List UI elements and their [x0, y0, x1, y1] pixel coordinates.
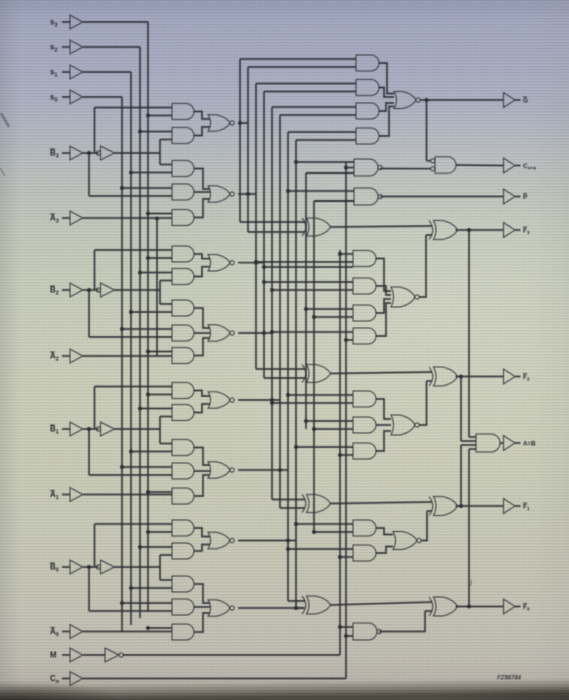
svg-text:A2: A2 [50, 352, 59, 363]
svg-text:Cn+4: Cn+4 [523, 163, 536, 171]
svg-text:A3: A3 [50, 214, 59, 225]
svg-text:s2: s2 [50, 43, 57, 54]
svg-text:F3: F3 [523, 227, 530, 235]
svg-text:s0: s0 [50, 93, 57, 104]
svg-text:F1: F1 [523, 503, 530, 511]
svg-text:G: G [523, 97, 528, 104]
svg-text:A1: A1 [50, 490, 59, 501]
svg-text:B3: B3 [50, 149, 59, 160]
svg-text:P: P [523, 194, 528, 201]
svg-text:M: M [50, 651, 57, 660]
svg-text:F0: F0 [523, 604, 530, 612]
svg-text:s1: s1 [50, 68, 57, 79]
svg-text:F2: F2 [523, 374, 530, 382]
svg-text:A=B: A=B [523, 440, 536, 447]
svg-text:A0: A0 [50, 627, 59, 638]
svg-text:FZ98784: FZ98784 [497, 676, 522, 682]
svg-text:B1: B1 [50, 425, 59, 436]
svg-text:B0: B0 [50, 563, 59, 574]
svg-text:Cn: Cn [50, 674, 60, 685]
svg-text:s3: s3 [50, 18, 57, 29]
svg-text:B2: B2 [50, 286, 59, 297]
